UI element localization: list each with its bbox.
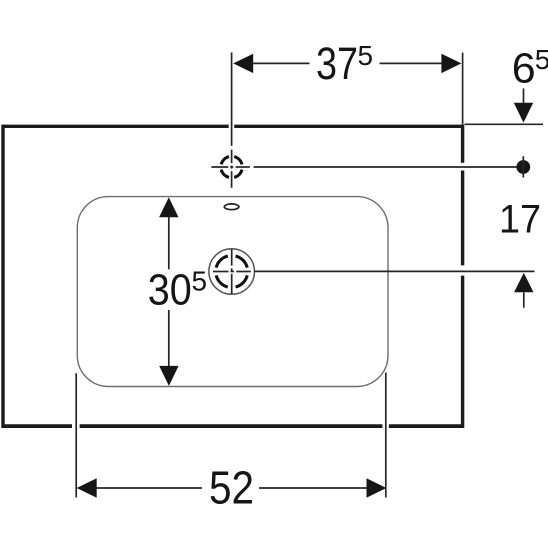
dimension 17: up arrowhead [514,273,533,292]
bottom edge right segment [389,424,463,428]
svg-text:52: 52 [209,461,254,513]
bottom edge middle segment [80,424,383,428]
tap hole vertical centerline (also 37.5 extension line) [231,52,233,187]
drain horizontal centerline [213,271,251,273]
right edge segment 2 [461,171,464,266]
dimension 30.5: vertical line [168,217,170,367]
svg-text:37: 37 [316,38,358,89]
svg-text:30: 30 [148,266,192,315]
dimension 52: left extension line from bowl [75,373,77,497]
drain inner circle (thick, gaps at cardinal points) [216,256,247,287]
drain outer circle (thin) [209,249,255,295]
top edge right of tap centerline [234,125,462,128]
drain vertical centerline [231,249,233,294]
basin bowl (rounded rectangle) [77,197,388,387]
dimension 30.5: top arrowhead [159,197,178,217]
dimension 52: right extension line from bowl [385,373,387,498]
dimension 37.5: line [253,62,442,64]
tap hole extension line to right datum dot [254,166,517,168]
dimension 30.5: bottom arrowhead [159,366,178,386]
dimension 37.5: left arrowhead [233,54,253,73]
svg-text:5: 5 [535,44,548,75]
dimension 52: line [96,487,366,489]
dimension 6.5: top edge extension line to right [465,123,544,125]
svg-text:6: 6 [512,45,536,93]
datum dot vertical tick [522,156,524,177]
right edge segment 3 [461,276,464,428]
right edge segment 1 [461,125,464,163]
dimension 52: right arrowhead [367,478,387,497]
dimension 37.5: right arrowhead [441,54,461,73]
dimension 17: arrow leader line below [523,292,525,307]
drain extension line to right (17 dim terminator line) [254,270,535,272]
svg-text:5: 5 [192,266,208,297]
dimension 37.5: right extension line (countertop corner up) [462,53,464,125]
bottom edge left segment [3,424,72,428]
datum dot on tap centerline extension [516,160,530,174]
dimension 6.5: arrow leader line [523,88,525,103]
svg-text:17: 17 [499,197,541,241]
overflow slot ellipse [224,204,239,210]
svg-text:5: 5 [358,40,374,71]
dimension 6.5: down arrowhead [514,103,533,123]
top edge left of tap centerline [3,125,229,128]
countertop outline (thick rectangle with gaps at crossing lines) [3,125,463,428]
left edge [1,125,4,428]
tap hole circle (thick, gaps at cardinal points) [221,157,242,178]
tap hole horizontal centerline [211,166,250,168]
dimension 52: left arrowhead [77,478,97,497]
